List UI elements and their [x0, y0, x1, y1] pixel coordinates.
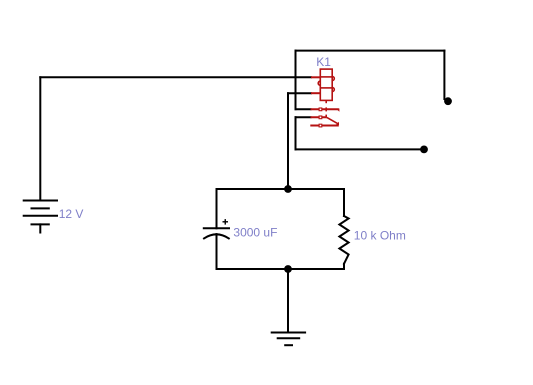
svg-text:12 V: 12 V	[59, 207, 84, 221]
svg-text:K1: K1	[316, 55, 331, 69]
svg-text:3000 uF: 3000 uF	[233, 226, 277, 240]
svg-text:10 k Ohm: 10 k Ohm	[354, 229, 406, 243]
